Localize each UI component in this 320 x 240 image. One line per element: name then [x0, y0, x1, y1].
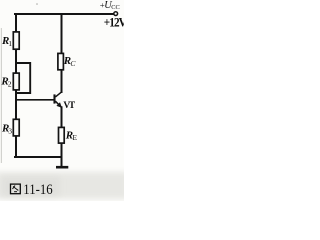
svg-text:E: E — [72, 133, 77, 142]
svg-text:+12V: +12V — [104, 16, 124, 30]
svg-text:CC: CC — [111, 4, 120, 11]
svg-text:2: 2 — [8, 79, 12, 88]
svg-text:11-16: 11-16 — [23, 181, 53, 197]
svg-text:1: 1 — [8, 39, 12, 48]
svg-text:3: 3 — [8, 126, 12, 135]
